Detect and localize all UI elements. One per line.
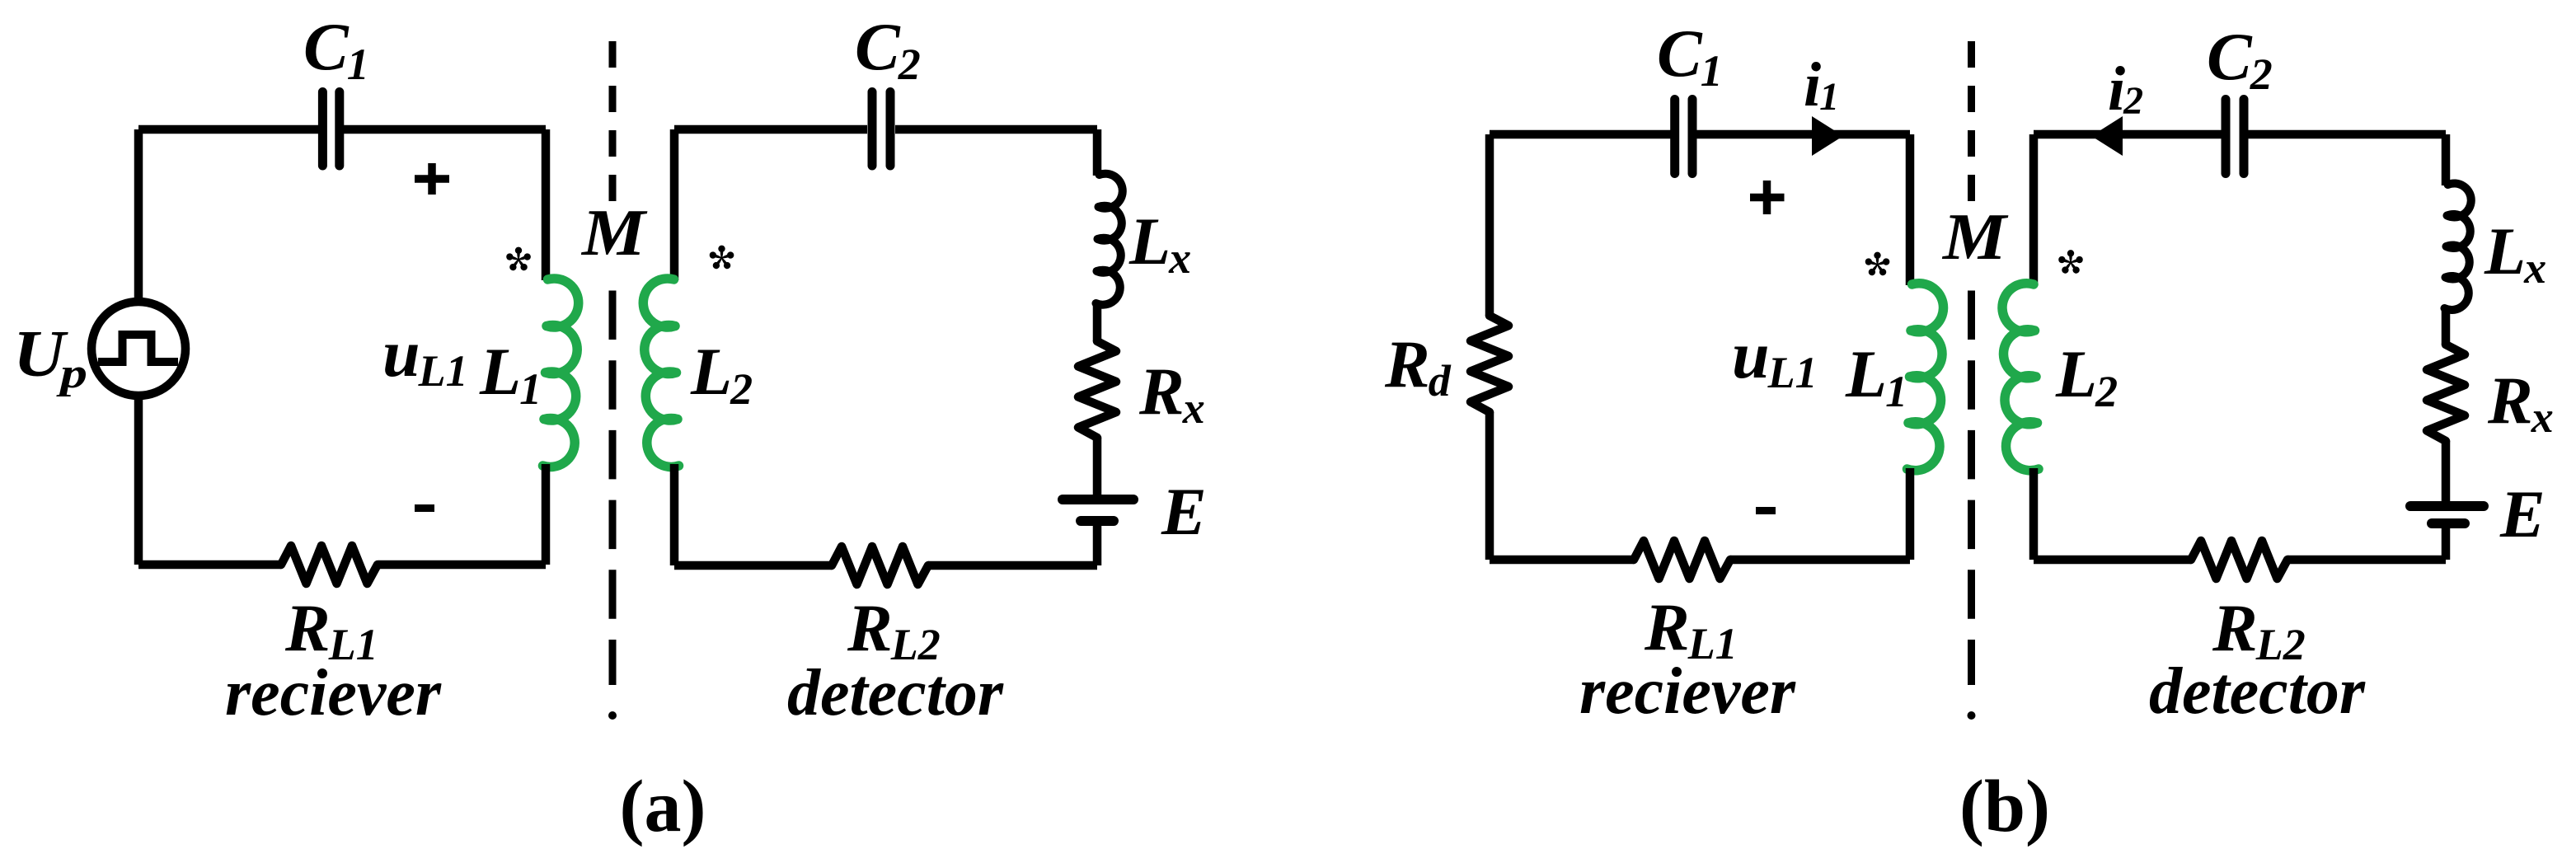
svg-text:M: M [1941, 201, 2009, 274]
wire a-detector below battery [1093, 526, 1102, 565]
coupling line end dot (b) [1968, 711, 1976, 720]
svg-text:C2: C2 [2207, 19, 2273, 99]
battery E short plate (b) [2432, 518, 2465, 528]
wire a-receiver top-right segment [340, 125, 546, 134]
dot marker star L1 (a) [505, 247, 532, 272]
resistor RL2 (b) [2191, 541, 2287, 579]
svg-text:(a): (a) [620, 766, 706, 847]
wire a-detector right lower stub [1093, 438, 1102, 495]
resistor RL2 (a) [832, 546, 928, 584]
current arrow i2 [2091, 116, 2123, 156]
wire a-detector bottom-right segment [928, 561, 1097, 570]
capacitor C2 plates (b) [2226, 100, 2244, 174]
resistor Rd [1471, 316, 1509, 412]
svg-text:Rd: Rd [1384, 326, 1452, 406]
wire a-receiver bottom-right segment [378, 560, 546, 570]
inductor L1 coil (b) [1907, 284, 1944, 471]
wire a-receiver right lower [542, 464, 551, 565]
wire b-receiver left upper [1485, 134, 1494, 316]
wire b-detector left upper [2029, 134, 2039, 285]
wire b-detector bottom-right segment [2287, 556, 2446, 565]
label minus (b) [1756, 507, 1776, 514]
coupling dashed line upper (b) [1968, 41, 1975, 201]
svg-text:C1: C1 [303, 9, 369, 89]
wire a-receiver bottom-left segment [138, 560, 281, 570]
battery E short plate (a) [1081, 516, 1114, 526]
label plus (b) [1750, 181, 1785, 214]
dot marker star L2 (a) [709, 246, 735, 270]
svg-text:E: E [1161, 474, 1207, 549]
resistor RL1 (b) [1634, 541, 1730, 579]
svg-text:L2: L2 [2055, 336, 2118, 416]
wire b-receiver top-left segment [1490, 130, 1671, 139]
svg-text:C1: C1 [1657, 16, 1723, 96]
coupling dashed line upper (a) [609, 41, 617, 201]
svg-text:L1: L1 [1845, 336, 1907, 416]
battery E long plate (b) [2410, 501, 2484, 511]
resistor RL1 [281, 546, 378, 584]
wire b-receiver left lower [1485, 412, 1494, 560]
inductor L2 coil (b) [2002, 284, 2039, 471]
coupling dashed line lower (b) [1968, 291, 1975, 686]
coupling line end dot (a) [608, 711, 617, 720]
svg-text:uL1: uL1 [1732, 317, 1818, 397]
coupling dashed line lower (a) [609, 291, 617, 686]
svg-text:i1: i1 [1804, 50, 1839, 120]
wire a-receiver right upper [542, 129, 551, 280]
wire a-detector left lower [670, 464, 679, 565]
current arrow i1 [1812, 116, 1843, 156]
wire a-detector right mid stub [1093, 303, 1102, 341]
wire a-receiver left upper [134, 129, 143, 299]
wire b-receiver bottom-left segment [1490, 556, 1634, 565]
wire a-receiver left lower [134, 398, 143, 565]
wire a-detector bottom-left segment [674, 561, 832, 570]
wire a-receiver top-left segment [138, 125, 321, 134]
wire a-detector top-right segment [895, 125, 1097, 134]
capacitor C1 plates (b) [1675, 100, 1692, 174]
capacitor C2 plates (a) [872, 92, 890, 167]
svg-text:uL1: uL1 [382, 316, 468, 396]
svg-text:Rx: Rx [2487, 363, 2554, 442]
svg-text:Lx: Lx [2484, 213, 2546, 293]
inductor L1 coil (a) [543, 279, 579, 467]
svg-text:(b): (b) [1959, 766, 2050, 847]
inductor Lx coil (b) [2445, 183, 2471, 309]
svg-text:reciever: reciever [1579, 655, 1796, 728]
wire a-detector top-left segment [674, 125, 867, 134]
wire b-detector left lower [2029, 468, 2039, 560]
inductor L2 coil (a) [643, 279, 678, 467]
svg-text:reciever: reciever [225, 657, 442, 729]
dot marker star L1 (b) [1865, 252, 1891, 277]
wire b-detector below battery [2442, 528, 2451, 560]
svg-text:detector: detector [787, 657, 1004, 729]
resistor Rx (b) [2427, 345, 2465, 441]
wire b-detector bottom-left segment [2034, 556, 2191, 565]
svg-text:C2: C2 [855, 9, 921, 89]
svg-text:Lx: Lx [1128, 204, 1191, 283]
label minus (a) [415, 504, 434, 512]
wire b-receiver right upper [1906, 134, 1915, 285]
wire b-receiver bottom-right segment [1730, 556, 1910, 565]
inductor Lx coil (a) [1096, 174, 1123, 305]
battery E long plate (a) [1063, 495, 1133, 504]
svg-text:L1: L1 [479, 334, 542, 414]
wire b-detector right mid stub [2442, 307, 2451, 345]
wire b-detector top-left segment [2034, 130, 2222, 139]
source Up circle [91, 302, 185, 396]
capacitor C1 plates [322, 92, 339, 167]
wire a-detector left upper [670, 129, 679, 280]
svg-text:p: p [56, 350, 87, 397]
svg-text:M: M [580, 197, 648, 270]
svg-text:E: E [2499, 476, 2546, 551]
svg-text:L2: L2 [690, 334, 753, 414]
svg-text:Rx: Rx [1138, 354, 1205, 433]
dot marker star L2 (b) [2058, 250, 2084, 274]
resistor Rx (a) [1078, 341, 1116, 438]
svg-text:i2: i2 [2108, 54, 2143, 124]
wire b-receiver top-right segment [1696, 130, 1910, 139]
wire b-detector right top stub [2442, 134, 2451, 185]
label plus (a) [415, 163, 449, 195]
svg-text:detector: detector [2149, 655, 2366, 728]
wire a-detector right top stub [1093, 129, 1102, 176]
wire b-receiver right lower [1906, 468, 1915, 560]
source Up pulse glyph [98, 335, 178, 362]
wire b-detector top-right segment [2248, 130, 2446, 139]
wire b-detector right lower stub [2442, 441, 2451, 502]
